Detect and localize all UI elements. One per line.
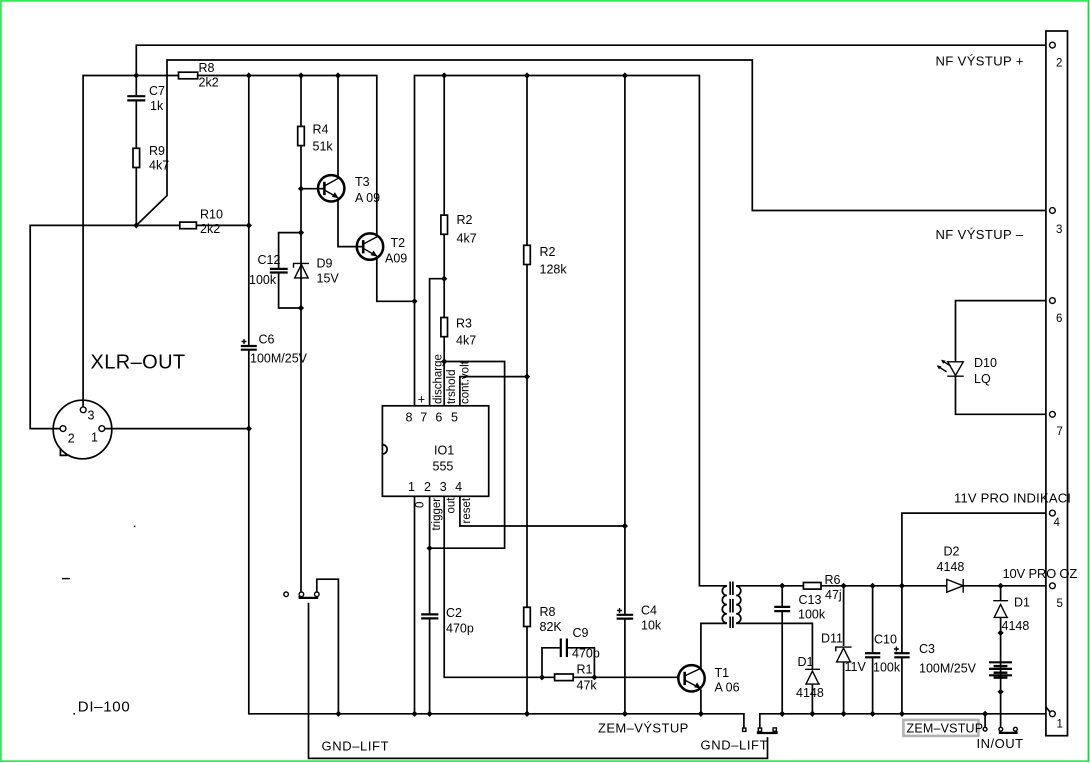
svg-text:R8: R8	[199, 61, 215, 75]
svg-text:trigger: trigger	[431, 498, 443, 531]
stray mark dash	[62, 578, 70, 580]
wire: C6 vertical line down to ground	[248, 76, 250, 346]
svg-text:R8: R8	[540, 605, 556, 619]
junction D11 bottom / ground bus	[841, 711, 847, 717]
junction C12 bottom / D9 line	[298, 305, 304, 311]
svg-text:C6: C6	[259, 333, 275, 347]
svg-text:D11: D11	[821, 632, 843, 646]
svg-text:82K: 82K	[540, 620, 563, 634]
svg-text:7: 7	[420, 411, 427, 425]
svg-text:5: 5	[451, 411, 458, 425]
svg-text:1: 1	[91, 431, 98, 445]
wire: transformer secondary bottom to T1 collector	[701, 623, 727, 669]
resistor R2 128k	[524, 245, 531, 264]
svg-text:2: 2	[1056, 58, 1062, 70]
transistor T2	[357, 233, 415, 301]
zener diode D9	[294, 263, 309, 277]
op-amp/timer IC IO1 555	[382, 406, 488, 497]
capacitor C4	[617, 614, 634, 616]
wire: R2-4k7 / R3 line down to IC pin6	[443, 76, 445, 406]
wire: top rail 1 to output pin 2	[136, 45, 1050, 75]
junction C9-R1 right / T1 base wire	[591, 674, 597, 680]
svg-text:C7: C7	[149, 84, 165, 98]
svg-text:R2: R2	[540, 245, 556, 259]
svg-text:2k2: 2k2	[200, 222, 220, 236]
capacitor C7	[127, 95, 145, 97]
svg-text:4148: 4148	[937, 560, 965, 574]
junction C13 top / 10V row	[779, 583, 785, 589]
svg-text:R2: R2	[457, 213, 473, 227]
svg-text:100k: 100k	[873, 661, 901, 675]
junction C13 bottom / ground bus	[779, 711, 785, 717]
capacitor C12 loop	[279, 233, 301, 268]
svg-text:8: 8	[406, 411, 413, 425]
svg-text:+: +	[418, 393, 425, 407]
resistor R1	[555, 674, 574, 681]
junction R4 top / V+ row	[298, 72, 304, 78]
svg-text:2: 2	[68, 432, 75, 446]
resistor R2 4k7	[441, 215, 448, 234]
svg-text:6: 6	[435, 411, 442, 425]
junction C2 bottom / ground bus	[427, 711, 433, 717]
capacitor C6	[241, 345, 257, 347]
resistor R10	[180, 222, 197, 229]
label box ZEM-VSTUP	[903, 720, 978, 736]
svg-text:10V PRO OZ: 10V PRO OZ	[1003, 566, 1078, 581]
junction R3 bottom / threshold node	[441, 358, 447, 364]
svg-text:11V: 11V	[845, 660, 867, 674]
junction IC pin1 / ground bus	[411, 711, 417, 717]
capacitor C9 loop	[542, 648, 560, 678]
resistor R6	[803, 583, 821, 590]
svg-text:out: out	[446, 497, 458, 514]
svg-text:3: 3	[440, 480, 447, 494]
switch GND-LIFT right	[743, 728, 777, 733]
transformer TR1	[722, 582, 741, 629]
svg-text:7: 7	[1057, 426, 1063, 438]
svg-text:11V PRO INDIKACI: 11V PRO INDIKACI	[954, 491, 1071, 506]
junction C10 top / 10V row	[870, 583, 876, 589]
switch GND-LIFT left	[284, 579, 768, 758]
junction D1 / battery top	[998, 630, 1004, 636]
junction C9 left / T1 base wire	[539, 674, 545, 680]
svg-text:T2: T2	[391, 236, 406, 250]
capacitor C10	[872, 586, 874, 653]
transistor T1	[678, 665, 739, 714]
transistor T3	[301, 76, 380, 247]
svg-text:100k: 100k	[798, 608, 826, 622]
diode D1 4148 (transformer side)	[805, 669, 820, 684]
junction R8-82K bottom / ground bus	[524, 711, 530, 717]
junction D1 bottom / ground bus	[809, 711, 815, 717]
svg-text:1: 1	[1057, 719, 1063, 731]
junction R10 row / C7-R9 line	[133, 222, 139, 228]
svg-text:IO1: IO1	[434, 444, 454, 458]
svg-text:R10: R10	[200, 208, 223, 222]
junction C6 line / V+ row	[246, 72, 252, 78]
junction control-voltage / divider	[524, 374, 530, 380]
junction R2/R3/discharge node	[441, 276, 447, 282]
wire: IC pin3 out to T1 base	[444, 496, 678, 677]
junction T1 emitter / ground bus	[698, 711, 704, 717]
wire: R10 row and XLR pin2 leg	[30, 225, 249, 428]
svg-text:A 06: A 06	[715, 681, 740, 695]
wire: branch to IC pin7 discharge	[430, 279, 445, 406]
svg-text:D2: D2	[944, 545, 960, 559]
svg-text:C13: C13	[799, 593, 822, 607]
svg-text:T1: T1	[715, 666, 730, 680]
svg-text:R4: R4	[313, 123, 329, 137]
svg-text:C12: C12	[258, 253, 281, 267]
junction T2 emitter / pin8 line	[411, 298, 417, 304]
svg-text:555: 555	[433, 460, 454, 474]
wire: transformer primary bottom to D1	[736, 623, 812, 669]
junction T3 collector / V+ row	[335, 72, 341, 78]
wire: R2-128k / R8-82K divider line	[526, 76, 528, 714]
svg-text:D10: D10	[974, 356, 997, 370]
wire: XLR pin1 to C6 node	[105, 428, 249, 430]
junction T3 base	[298, 186, 304, 192]
wire: V+ row left segment (XLR pin3 drop, to T2 collector)	[83, 76, 377, 408]
svg-text:4k7: 4k7	[457, 232, 477, 246]
svg-text:C10: C10	[874, 633, 897, 647]
junction C12 top / D9 top	[298, 230, 304, 236]
junction reset / C4 line	[622, 523, 628, 529]
junction battery bottom	[998, 689, 1004, 695]
svg-text:R1: R1	[577, 663, 593, 677]
zener diode D11	[843, 586, 845, 646]
svg-text:470p: 470p	[572, 647, 600, 661]
svg-text:2k2: 2k2	[199, 76, 219, 90]
svg-text:4148: 4148	[796, 686, 824, 700]
svg-text:cont.volt: cont.volt	[459, 360, 471, 404]
svg-text:4: 4	[455, 480, 462, 494]
wire: C7/R9 branch	[135, 76, 137, 96]
svg-text:6: 6	[1056, 313, 1062, 325]
svg-text:3: 3	[88, 409, 95, 423]
svg-text:IN/OUT: IN/OUT	[977, 736, 1024, 751]
wire: IC pin1 to ground	[414, 496, 416, 714]
wire: top rail 2 to output pin 3	[136, 60, 1050, 225]
svg-text:128k: 128k	[540, 263, 568, 277]
wire: R4/D9 vertical line to GND-LIFT switch	[300, 76, 302, 592]
wire: transformer primary top to 10V row	[736, 585, 947, 587]
svg-text:0: 0	[414, 502, 426, 508]
diode D2	[947, 579, 963, 593]
wire: control voltage pin5 to divider	[460, 377, 527, 406]
resistor R9	[133, 148, 140, 167]
junction IN/OUT stub / ground bus	[982, 711, 988, 717]
svg-text:A09: A09	[385, 252, 407, 266]
resistor R3	[441, 318, 448, 337]
resistor R4	[298, 126, 305, 145]
svg-text:47k: 47k	[577, 679, 598, 693]
junction XLR pin1 / C6 line	[246, 426, 252, 432]
svg-text:ZEM–VSTUP: ZEM–VSTUP	[907, 722, 984, 736]
svg-text:4148: 4148	[1002, 619, 1030, 633]
junction trigger / threshold loop	[427, 545, 433, 551]
svg-text:GND–LIFT: GND–LIFT	[322, 739, 390, 754]
XLR-OUT connector	[53, 400, 112, 459]
capacitor C3 and 11V feed	[902, 513, 1050, 652]
wire: threshold-trigger loop	[430, 362, 505, 549]
svg-text:ZEM–VÝSTUP: ZEM–VÝSTUP	[598, 721, 689, 736]
switch IN/OUT	[983, 714, 1017, 733]
svg-text:NF VÝSTUP –: NF VÝSTUP –	[936, 227, 1024, 242]
resistor R8	[179, 72, 198, 79]
wire: 10V row after D2 to output pin 5	[963, 585, 1050, 587]
output connector strip	[1046, 31, 1068, 736]
junction divider top / V+ row	[524, 72, 530, 78]
LED D10	[937, 301, 1050, 415]
svg-text:GND–LIFT: GND–LIFT	[701, 738, 769, 753]
svg-text:C4: C4	[641, 604, 657, 618]
svg-text:C9: C9	[573, 626, 589, 640]
svg-text:A 09: A 09	[355, 191, 380, 205]
svg-text:R9: R9	[149, 144, 165, 158]
svg-text:LQ: LQ	[974, 372, 991, 386]
junction C4 line top / V+ row	[622, 72, 628, 78]
wire: IC pin2 trigger through C2 to ground	[429, 496, 431, 613]
svg-text:470p: 470p	[446, 622, 474, 636]
junction C4 bottom / ground bus	[622, 711, 628, 717]
svg-text:1: 1	[408, 480, 415, 494]
junction R2-4k7 top / V+ row	[441, 72, 447, 78]
junction R10 row / C6 line	[246, 222, 252, 228]
svg-text:5: 5	[1057, 598, 1063, 610]
svg-text:C2: C2	[446, 606, 462, 620]
svg-text:4: 4	[1054, 517, 1061, 529]
svg-text:1k: 1k	[150, 99, 164, 113]
svg-text:2: 2	[424, 480, 431, 494]
junction D11 top / 10V row	[841, 583, 847, 589]
junction D1 top / 10V row pin5	[998, 583, 1004, 589]
capacitor C13	[781, 586, 783, 606]
svg-text:100M/25V: 100M/25V	[919, 662, 977, 676]
junction C7 top / R8 row	[133, 72, 139, 78]
svg-text:10k: 10k	[641, 619, 662, 633]
svg-text:100k: 100k	[249, 273, 277, 287]
svg-text:T3: T3	[355, 175, 370, 189]
diode D1 4148 (battery side)	[1000, 586, 1002, 601]
svg-text:47j: 47j	[825, 588, 842, 602]
svg-text:R3: R3	[456, 317, 472, 331]
svg-text:D1: D1	[798, 655, 814, 669]
wire: ground right segment	[760, 714, 1050, 728]
svg-text:trshold: trshold	[446, 369, 458, 404]
svg-text:C3: C3	[919, 642, 935, 656]
junction C3 bottom / ground bus	[899, 711, 905, 717]
junction C10 bottom / ground bus	[870, 711, 876, 717]
svg-text:4k7: 4k7	[456, 334, 476, 348]
svg-text:R6: R6	[825, 573, 841, 587]
svg-text:3: 3	[1056, 224, 1062, 236]
svg-text:reset: reset	[461, 497, 473, 523]
svg-text:NF VÝSTUP +: NF VÝSTUP +	[936, 54, 1024, 69]
svg-text:51k: 51k	[313, 140, 334, 154]
svg-text:4k7: 4k7	[149, 159, 169, 173]
svg-text:15V: 15V	[317, 272, 340, 286]
resistor R8 82K	[524, 607, 531, 626]
junction C3-11V line / 10V row	[899, 583, 905, 589]
capacitor C2	[421, 613, 438, 615]
svg-text:D1: D1	[1014, 596, 1030, 610]
svg-text:100M/25V: 100M/25V	[250, 352, 308, 366]
wire: IC pin4 reset to C4 node	[460, 496, 625, 526]
svg-text:DI–100: DI–100	[78, 699, 131, 716]
svg-text:D9: D9	[317, 257, 333, 271]
battery B1	[989, 662, 1012, 679]
wire: C4 line rail to ground	[624, 76, 626, 614]
wire: V+ row right segment (IC pin8 drop to transformer drop)	[415, 76, 727, 586]
stray mark dots	[134, 526, 136, 528]
junction GND-LIFT branch / ground bus	[335, 711, 341, 717]
svg-text:XLR–OUT: XLR–OUT	[91, 352, 186, 374]
